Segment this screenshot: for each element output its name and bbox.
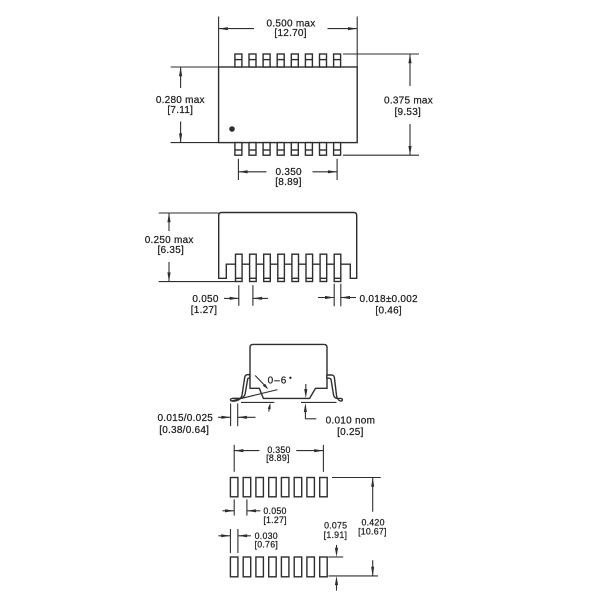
top view: package body outline [219,67,358,143]
svg-text:0.050: 0.050 [192,294,218,305]
svg-text:0.250 max: 0.250 max [145,235,194,246]
svg-text:[7.11]: [7.11] [167,105,193,116]
svg-text:[1.27]: [1.27] [263,515,287,525]
end view: lead foot angle reference line (0-6 deg) [232,390,278,401]
svg-text:[0.25]: [0.25] [337,427,364,438]
land pattern: top pad row [230,478,327,497]
top view: bottom pin row (pins 1-8) [235,143,341,156]
label 0-6 degrees [268,375,292,386]
end view: left gull-wing lead [230,375,249,402]
svg-text:[1.91]: [1.91] [324,530,348,540]
side view: 8 gull-wing leads (end-on) [236,254,341,281]
svg-text:0.015/0.025: 0.015/0.025 [158,413,214,424]
dimension 0.075 [1.91] pad length [324,521,348,591]
svg-text:[8.89]: [8.89] [275,177,302,188]
dimension 0.280 max [7.11] body width [156,67,219,143]
land pattern: bottom pad row [230,557,327,577]
annotation 0-6 degree leader arrow [255,376,268,390]
annotation 0-6 degree lower arrow to seating plane [268,403,271,412]
dimension 0.010 nom [0.25] standoff [304,384,375,438]
dimension 0.500 max [12.70] overall length [219,17,358,68]
dimension 0.050 [1.27] pad pitch [222,499,286,525]
svg-text:0–6: 0–6 [268,375,288,386]
dimension 0.350 [8.89] outer pin centers [238,159,337,188]
svg-text:[0.38/0.64]: [0.38/0.64] [159,425,209,436]
svg-text:[10.67]: [10.67] [358,527,387,537]
end view: seating plane lines [241,401,337,403]
svg-text:[0.46]: [0.46] [375,305,402,316]
dimension 0.420 [10.67] land pattern span [329,478,387,576]
svg-text:0.018±0.002: 0.018±0.002 [360,294,418,305]
end view: right gull-wing lead [327,375,343,401]
dimension 0.350 [8.89] pad row span [234,445,323,472]
svg-text:[1.27]: [1.27] [191,305,218,316]
end view: package body outline [250,344,327,398]
dimension 0.050 [1.27] lead pitch (side view) [191,285,268,316]
dimension 0.375 max [9.53] lead tip to tip [343,54,433,155]
dimension 0.015/0.025 [0.38/0.64] foot length [158,404,256,437]
side view: package body outline [219,213,357,279]
top view: pin 1 index dot [229,126,235,132]
svg-text:0.010 nom: 0.010 nom [326,415,376,426]
top view: top pin row (pins 16-9) [235,54,341,67]
dimension 0.250 max [6.35] seated height [145,213,236,282]
dimension 0.030 [0.76] pad width [218,529,278,553]
svg-text:[0.76]: [0.76] [255,540,279,550]
svg-text:0.075: 0.075 [324,521,347,531]
dimension 0.018±0.002 [0.46] lead width [318,284,418,317]
svg-text:0.375 max: 0.375 max [384,96,433,107]
svg-text:[8.89]: [8.89] [266,453,290,463]
svg-text:[6.35]: [6.35] [158,245,185,256]
svg-text:[12.70]: [12.70] [274,28,306,39]
svg-text:[9.53]: [9.53] [395,107,422,118]
